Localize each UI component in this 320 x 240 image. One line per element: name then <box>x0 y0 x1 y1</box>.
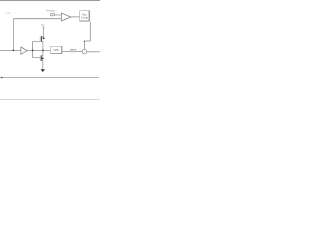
svg-text:Vdd: Vdd <box>5 11 11 15</box>
wire mid rail input <box>0 49 21 51</box>
current arrow <box>41 69 45 72</box>
page top border <box>0 0 100 2</box>
svg-text:M1: M1 <box>41 23 45 27</box>
block LPF <box>51 46 62 53</box>
block B1 Osc Comp <box>80 11 90 21</box>
wire down to oscillator <box>83 41 85 49</box>
op-amp U1 <box>61 13 70 21</box>
transistor M1 gate bar <box>39 36 41 41</box>
wire top rail to op-amp inverting input <box>13 18 61 20</box>
svg-text:Vramp: Vramp <box>46 8 55 12</box>
junction dot C <box>42 50 44 52</box>
svg-text:LPF: LPF <box>53 48 59 52</box>
wire M1 gate lead <box>33 41 41 43</box>
wire LPF to oscillator <box>62 50 82 52</box>
wire op-amp output to comparator box <box>71 16 80 18</box>
oscillator O1 <box>82 49 87 54</box>
transistor M2 gate bar <box>39 56 41 61</box>
svg-text:Comp: Comp <box>81 16 89 20</box>
wire output to right edge <box>87 51 100 53</box>
wire feedback: left vertical <box>12 19 14 51</box>
transistor M2 drain lead <box>41 50 43 56</box>
port P1 <box>51 14 55 16</box>
wire gate bus vertical <box>32 42 34 58</box>
transistor M2 body dot <box>42 57 44 59</box>
junction dot D <box>84 41 85 42</box>
transistor M1 channel <box>41 36 43 42</box>
transistor M2 source lead <box>41 60 42 69</box>
wire jog left <box>84 40 90 42</box>
transistor M1 source lead <box>42 41 43 50</box>
terminal tick bottom rail <box>1 77 3 79</box>
wire buffer output rail <box>27 50 50 52</box>
wire box output down <box>89 22 91 41</box>
junction dot A <box>12 49 14 51</box>
wire to op-amp non-inverting input <box>54 14 61 16</box>
transistor M1 body dot <box>43 37 45 39</box>
junction dot B <box>32 50 34 52</box>
buffer U2 <box>21 47 27 55</box>
node Vc label <box>71 49 76 52</box>
wire M2 gate lead <box>33 57 41 59</box>
wire bottom rail <box>1 77 99 79</box>
transistor M2 channel <box>40 55 42 61</box>
page bottom border <box>0 99 100 101</box>
transistor M1 drain lead with arrow <box>42 27 44 37</box>
